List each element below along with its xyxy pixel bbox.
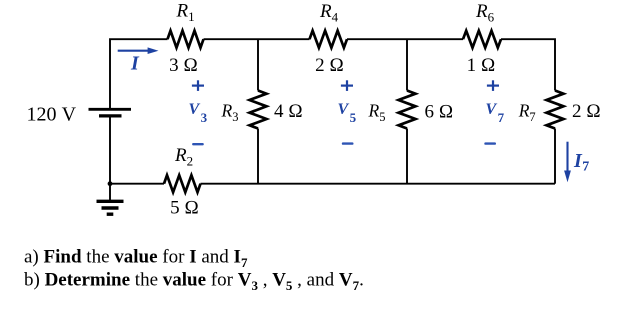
wire below battery [109, 118, 111, 184]
svg-text:b) Determine the value for V3: b) Determine the value for V3 , V5 , and… [24, 270, 364, 294]
svg-text:I7: I7 [573, 150, 589, 175]
resistor R6 [463, 31, 501, 48]
svg-text:V7: V7 [486, 101, 505, 125]
plus sign V5 [341, 80, 353, 91]
svg-text:R6: R6 [475, 1, 495, 25]
wire bottom left to R2 [110, 183, 164, 185]
minus sign V3 [192, 143, 204, 145]
svg-text:R1: R1 [176, 1, 195, 25]
resistor R1 [168, 31, 204, 48]
wire R4 to R6 [347, 38, 463, 40]
wire bottom R2 to right corner [201, 183, 556, 185]
svg-text:1 Ω: 1 Ω [467, 55, 496, 76]
plus sign V3 [192, 80, 204, 91]
svg-text:5 Ω: 5 Ω [170, 198, 199, 219]
battery V1 long plate [89, 108, 132, 111]
resistor R3 [250, 91, 267, 129]
wire R3 branch upper [257, 39, 259, 90]
svg-text:R2: R2 [174, 145, 193, 169]
resistor R7 [547, 91, 564, 129]
svg-text:R3: R3 [221, 101, 239, 125]
svg-text:V3: V3 [189, 101, 208, 125]
svg-text:R5: R5 [368, 101, 386, 125]
svg-text:a) Find the value for I and I7: a) Find the value for I and I7 [24, 247, 248, 271]
svg-text:R7: R7 [518, 101, 536, 125]
current arrow I7 [564, 142, 571, 183]
svg-text:R4: R4 [319, 1, 339, 25]
wire R3 branch lower [257, 129, 259, 184]
svg-text:2 Ω: 2 Ω [572, 101, 601, 122]
ground [97, 184, 124, 215]
battery V1 short plate [99, 114, 122, 117]
svg-text:3 Ω: 3 Ω [169, 55, 198, 76]
node junction dot bottom-left [108, 181, 113, 186]
svg-text:I: I [130, 53, 140, 75]
resistor R2 [164, 175, 201, 192]
wire R6 to right corner [501, 39, 555, 90]
resistor R5 [399, 91, 416, 129]
current arrow I [118, 47, 159, 54]
wire R5 branch upper [406, 39, 408, 90]
svg-text:6 Ω: 6 Ω [425, 101, 454, 122]
wire top segment V source to R1 [110, 39, 168, 108]
svg-text:V5: V5 [338, 101, 357, 125]
wire R1 to R4 [204, 38, 310, 40]
minus sign V5 [342, 142, 354, 144]
svg-text:120 V: 120 V [27, 103, 77, 125]
plus sign V7 [487, 80, 499, 91]
svg-text:4 Ω: 4 Ω [274, 101, 303, 122]
wire R5 branch lower [406, 129, 408, 184]
wire R7 branch lower [554, 129, 556, 184]
svg-text:2 Ω: 2 Ω [315, 55, 344, 76]
resistor R4 [310, 31, 348, 48]
minus sign V7 [484, 142, 496, 144]
